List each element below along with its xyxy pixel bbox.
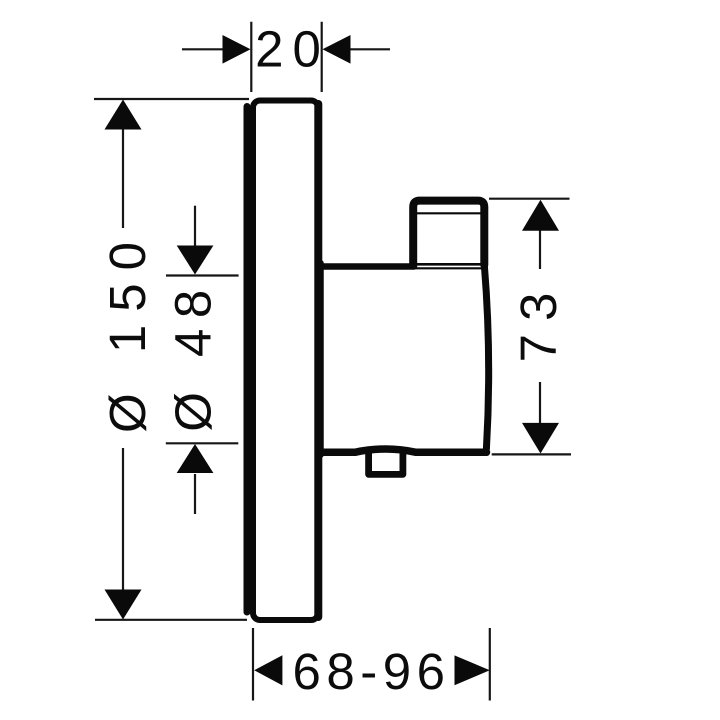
knob lower seam [414,267,484,269]
svg-text:73: 73 [510,280,567,363]
dim 68-96 left extension line [252,628,254,701]
plate right edge thick overlay [314,104,322,617]
dim 20 right lead line [350,48,390,50]
plate back edge [244,107,251,613]
dim 73 line lower [539,382,541,424]
knob inner line [417,212,481,214]
dim D150 top arrow [105,100,142,130]
dim 73 top extension line [489,198,570,200]
body right edge curve [484,266,488,449]
knob bottom seam [414,263,485,266]
dim 73 top arrow [522,200,559,231]
dim 68-96 left arrow [254,655,282,685]
dim 73 line upper [539,229,541,269]
dim D48 line lower [194,474,196,514]
dim 73 bottom extension line [492,453,571,455]
dim D48 up arrow [177,444,214,473]
tab at bottom [369,453,403,475]
dim D48 bottom tick [166,442,239,444]
dim 68-96 right arrow [455,655,490,685]
dim D150 top extension line [94,98,249,100]
dim 68-96 right extension line [489,628,491,701]
dim D48 line upper [194,206,196,247]
dim 20 right arrow [323,35,351,64]
dim D150 bottom extension line [95,619,247,621]
body top edge [320,263,414,270]
dim D150 line upper [122,128,124,228]
body bottom edge [320,449,487,452]
dim 20 left extension line [250,22,252,92]
dim D48 down arrow [177,246,214,275]
dim 20 left lead line [182,48,224,50]
dim 20 left arrow [223,35,251,64]
dim D150 line lower [122,448,124,592]
body seam line at plate [318,263,324,455]
dim 73 bottom arrow [522,423,559,454]
svg-text:20: 20 [255,21,330,78]
svg-text:Ø 48: Ø 48 [165,279,222,432]
svg-text:68-96: 68-96 [293,643,451,700]
dim D150 bottom arrow [105,590,142,620]
plate outline [253,101,318,621]
svg-text:Ø 150: Ø 150 [99,229,156,433]
dim D48 top tick [166,274,239,276]
dim 20 right extension line [321,22,323,92]
knob U1 outline [413,201,484,265]
